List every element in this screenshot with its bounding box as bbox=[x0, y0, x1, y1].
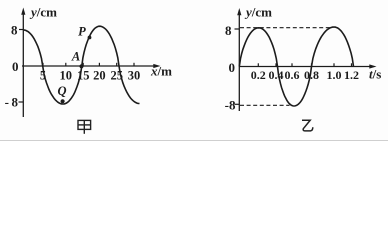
svg-text:0.4: 0.4 bbox=[269, 68, 284, 82]
svg-text:0.2: 0.2 bbox=[251, 68, 266, 82]
faint bottom edge bbox=[0, 139, 388, 141]
svg-text:15: 15 bbox=[77, 69, 90, 83]
svg-text:8: 8 bbox=[11, 23, 18, 38]
point A dot bbox=[79, 64, 83, 68]
left x-axis arrow bbox=[153, 64, 160, 68]
right wave bbox=[239, 27, 353, 106]
svg-text:30: 30 bbox=[128, 69, 141, 83]
svg-text:10: 10 bbox=[60, 69, 73, 83]
yi character bbox=[302, 120, 313, 131]
svg-text:8: 8 bbox=[225, 23, 232, 38]
right ticks bbox=[235, 29, 352, 104]
svg-text:25: 25 bbox=[110, 69, 123, 83]
svg-text:1.2: 1.2 bbox=[344, 68, 359, 82]
svg-text:5: 5 bbox=[40, 69, 46, 83]
right x-axis arrow bbox=[369, 64, 376, 68]
svg-text:Q: Q bbox=[57, 84, 66, 98]
svg-text:t/s: t/s bbox=[369, 67, 381, 82]
svg-text:x/m: x/m bbox=[150, 64, 172, 79]
svg-text:P: P bbox=[78, 25, 86, 39]
left graph y-axis bbox=[22, 12, 24, 117]
svg-text:- 8: - 8 bbox=[5, 95, 19, 110]
svg-text:0: 0 bbox=[229, 60, 236, 75]
left wave bbox=[23, 26, 139, 104]
dashed guides bbox=[240, 28, 331, 106]
svg-text:0: 0 bbox=[12, 59, 19, 74]
right graph x-axis bbox=[239, 66, 371, 68]
left y-axis arrow bbox=[21, 8, 25, 15]
svg-text:0.8: 0.8 bbox=[304, 68, 319, 82]
left ticks bbox=[19, 30, 135, 103]
left graph x-axis bbox=[22, 65, 155, 67]
svg-text:0.6: 0.6 bbox=[285, 68, 300, 82]
svg-text:y/cm: y/cm bbox=[244, 5, 272, 20]
svg-text:1.0: 1.0 bbox=[327, 68, 342, 82]
point P dot bbox=[88, 36, 92, 40]
svg-text:20: 20 bbox=[93, 69, 106, 83]
svg-text:-8: -8 bbox=[225, 98, 236, 113]
svg-text:A: A bbox=[71, 50, 80, 64]
jia character bbox=[78, 120, 91, 133]
svg-text:y/cm: y/cm bbox=[29, 5, 57, 20]
point Q dot bbox=[61, 99, 65, 103]
right graph y-axis bbox=[238, 12, 240, 111]
right y-axis arrow bbox=[237, 8, 241, 15]
